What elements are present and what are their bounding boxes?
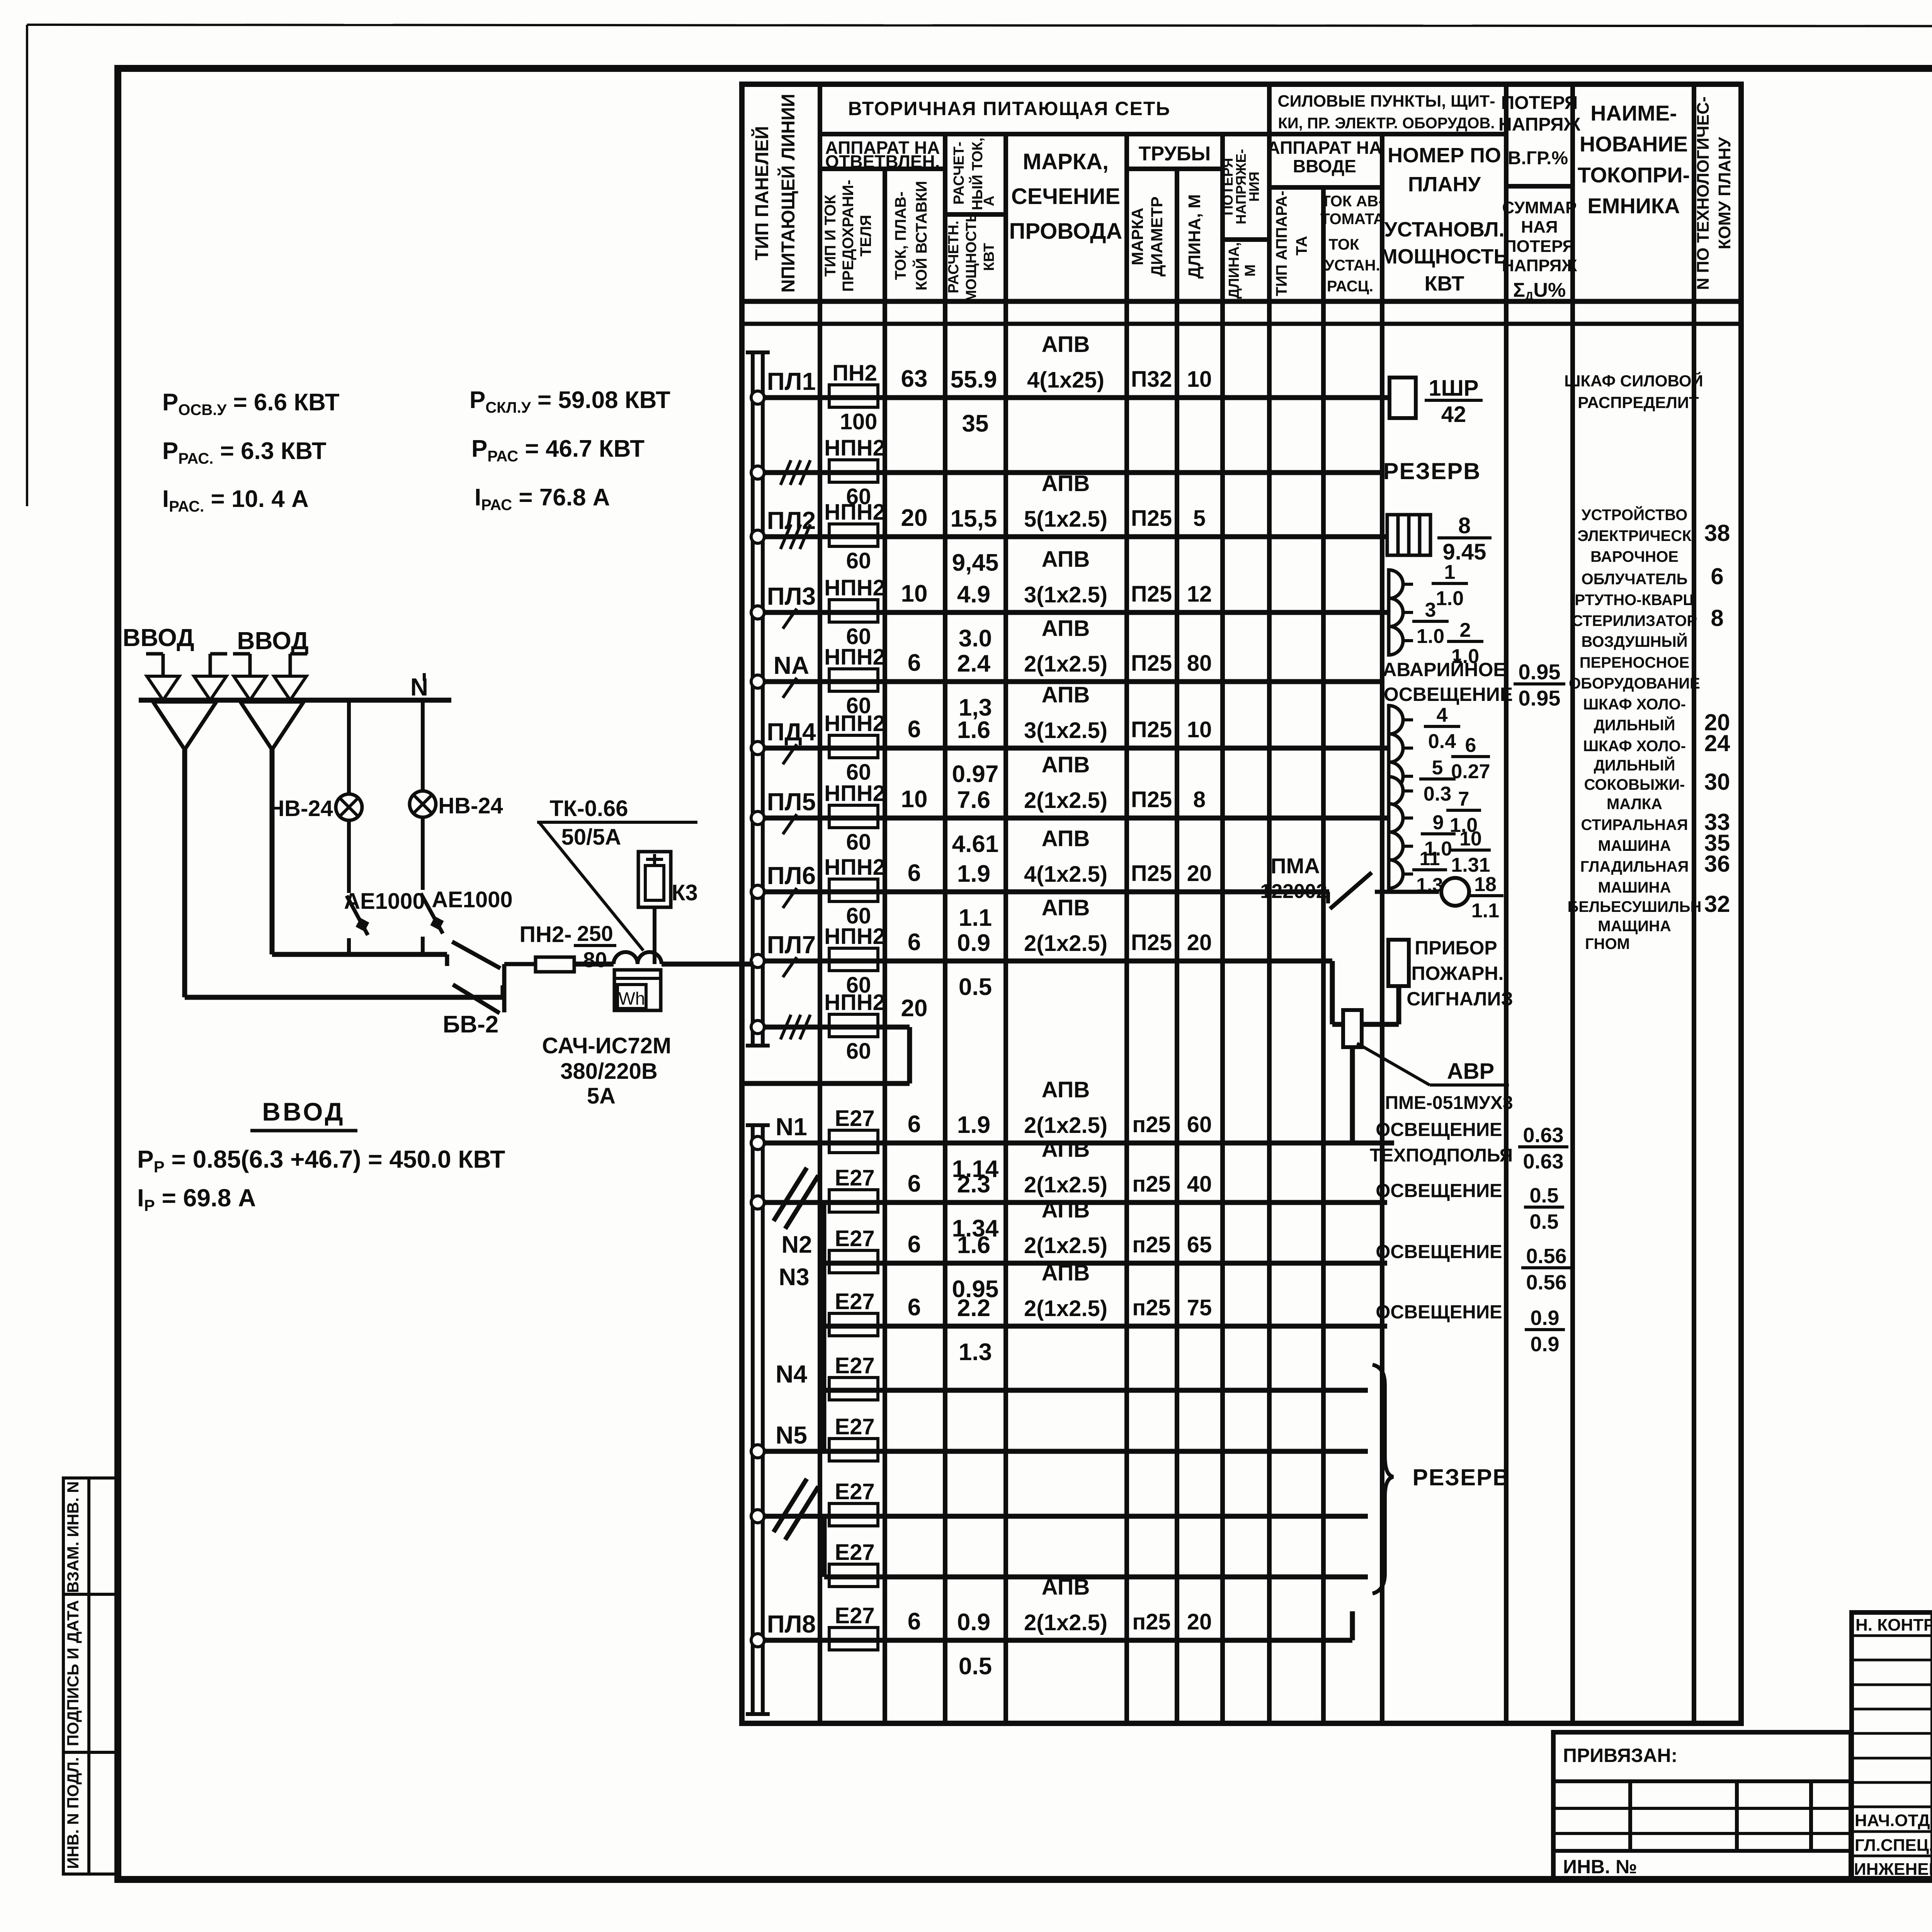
calc current/power values ПЛ8	[957, 1609, 992, 1680]
node on busbar for ПЛ6	[751, 885, 764, 898]
svg-text:ИНВ. N ПОДЛ.: ИНВ. N ПОДЛ.	[64, 1757, 82, 1869]
svg-text:1.6: 1.6	[957, 717, 990, 743]
svg-text:32: 32	[1704, 891, 1730, 917]
fuse Е27 row16	[829, 1479, 878, 1526]
node on busbar for ПЛ7	[751, 954, 764, 968]
fuse current value ПЛ3	[901, 580, 928, 607]
svg-text:0.95: 0.95	[1519, 686, 1561, 710]
upper formulas right block	[469, 387, 670, 514]
svg-text:2(1x2.5): 2(1x2.5)	[1024, 651, 1107, 677]
svg-text:N4: N4	[776, 1360, 807, 1388]
label Ввод (left pair)	[122, 624, 194, 651]
wire mark АПВ ПЛ5	[1024, 752, 1107, 813]
svg-text:ПРЕДОХРАНИ-: ПРЕДОХРАНИ-	[840, 180, 857, 292]
switch БВ-2 blade 1	[452, 942, 500, 968]
svg-text:6: 6	[908, 1294, 921, 1321]
svg-text:0.56: 0.56	[1526, 1271, 1566, 1294]
panel label N1	[776, 1113, 807, 1141]
feeder line row11 wire	[764, 1200, 1387, 1205]
svg-text:9: 9	[1433, 811, 1444, 834]
feeder line row16 wire	[764, 1514, 1368, 1519]
fuse Е27 N1	[829, 1106, 878, 1153]
header: Ток автомата Ток устан. расц.	[1320, 193, 1384, 295]
svg-text:ГЛАДИЛЬНАЯ: ГЛАДИЛЬНАЯ	[1580, 858, 1689, 875]
svg-text:БВ-2: БВ-2	[443, 1011, 498, 1038]
svg-text:6: 6	[908, 1608, 921, 1635]
consumer names list	[1568, 506, 1702, 952]
svg-text:КИ, ПР. ЭЛЕКТР. ОБОРУДОВ.: КИ, ПР. ЭЛЕКТР. ОБОРУДОВ.	[1278, 115, 1495, 132]
svg-text:НПН2: НПН2	[824, 435, 885, 461]
svg-text:ТОКОПРИ-: ТОКОПРИ-	[1578, 163, 1690, 187]
feeder line ПЛ7 wire	[764, 959, 1332, 964]
calc current/power values ПЛ6	[957, 861, 992, 931]
node on busbar for ПЛ1	[751, 391, 764, 404]
lamp branch wire 2	[421, 700, 425, 890]
wire mark АПВ row12	[1024, 1197, 1107, 1258]
svg-text:ЭЛЕКТРИЧЕСК: ЭЛЕКТРИЧЕСК	[1577, 527, 1692, 544]
svg-text:п25: п25	[1132, 1172, 1171, 1197]
switch БВ-2 blade 2	[453, 985, 500, 1013]
svg-text:35: 35	[962, 410, 989, 437]
node on busbar for NА	[751, 675, 764, 688]
svg-text:7.6: 7.6	[957, 787, 990, 813]
svg-text:42: 42	[1441, 402, 1466, 427]
fuse Е27 N4	[829, 1353, 878, 1400]
panel label ПЛ7	[767, 931, 816, 959]
svg-text:СИЛОВЫЕ ПУНКТЫ, ЩИТ-: СИЛОВЫЕ ПУНКТЫ, ЩИТ-	[1278, 92, 1495, 111]
label АЕ1000 #2	[432, 887, 513, 912]
svg-text:ОСВЕЩЕНИЕ: ОСВЕЩЕНИЕ	[1384, 684, 1513, 705]
svg-text:Е27: Е27	[835, 1106, 874, 1131]
svg-text:0.5: 0.5	[1529, 1184, 1558, 1207]
cascade link N3a-N4-N5	[821, 1326, 827, 1451]
svg-text:IР = 69.8 А: IР = 69.8 А	[137, 1184, 256, 1214]
svg-text:ПЕРЕНОСНОЕ: ПЕРЕНОСНОЕ	[1580, 654, 1689, 671]
svg-text:4(1x2.5): 4(1x2.5)	[1024, 862, 1107, 887]
svg-text:П25: П25	[1131, 651, 1172, 676]
svg-text:ПОДПИСЬ И ДАТА: ПОДПИСЬ И ДАТА	[64, 1600, 82, 1746]
svg-text:ПРИВЯЗАН:: ПРИВЯЗАН:	[1563, 1745, 1677, 1766]
svg-text:2.3: 2.3	[957, 1171, 990, 1198]
header: Вторичная питающая сеть	[848, 98, 1171, 119]
svg-text:НАПРЯЖ: НАПРЯЖ	[1498, 114, 1581, 135]
svg-text:ПОТЕРЯ: ПОТЕРЯ	[1501, 93, 1578, 113]
bottom collector wire	[185, 985, 503, 997]
svg-text:Wh: Wh	[619, 988, 645, 1009]
svg-text:10: 10	[1187, 367, 1212, 392]
svg-text:10: 10	[1459, 828, 1482, 850]
ОСВЕЩЕНИЕ ТЕХПОДПОЛЬЯ text (N1)	[1370, 1119, 1513, 1166]
fuse current value ПЛ7	[908, 929, 921, 956]
svg-text:2: 2	[1460, 619, 1471, 641]
node on busbar for ПЛ5	[751, 811, 764, 825]
svg-text:2(1x2.5): 2(1x2.5)	[1024, 931, 1107, 956]
svg-text:ТРУБЫ: ТРУБЫ	[1139, 143, 1211, 165]
svg-text:5А: 5А	[587, 1083, 616, 1109]
header: Номер по плану Установл. мощность кВт	[1380, 144, 1509, 295]
svg-text:2(1x2.5): 2(1x2.5)	[1024, 1233, 1107, 1258]
svg-text:ОБОРУДОВАНИЕ: ОБОРУДОВАНИЕ	[1569, 675, 1700, 692]
svg-text:100: 100	[840, 409, 878, 434]
calc current/power values row13	[957, 1295, 992, 1366]
panel label ПД4	[767, 718, 816, 746]
svg-text:4: 4	[1437, 704, 1448, 726]
svg-text:0.4: 0.4	[1428, 730, 1456, 753]
cascade link N2-N3-N3a	[821, 1202, 827, 1326]
wire mark АПВ row13	[1024, 1260, 1107, 1321]
svg-text:ОБЛУЧАТЕЛЬ: ОБЛУЧАТЕЛЬ	[1582, 571, 1688, 588]
node on busbar for ПЛ3	[751, 606, 764, 619]
svg-text:АПВ: АПВ	[1042, 752, 1090, 777]
svg-text:6: 6	[1711, 563, 1723, 589]
fuse current value row9	[901, 995, 928, 1022]
svg-text:ВВОД: ВВОД	[262, 1097, 345, 1126]
svg-text:НАИМЕ-: НАИМЕ-	[1590, 101, 1677, 125]
wire АВР to fire alarm device	[1362, 986, 1399, 1024]
svg-text:0.5: 0.5	[1529, 1210, 1558, 1233]
table column lines	[820, 84, 1694, 1723]
svg-text:0.95: 0.95	[1519, 660, 1561, 684]
svg-text:15,5: 15,5	[951, 505, 997, 532]
svg-text:АВР: АВР	[1447, 1059, 1494, 1084]
current transformer humps	[614, 952, 662, 964]
label Ввод (right pair)	[237, 627, 308, 655]
svg-text:ДИЛЬНЫЙ: ДИЛЬНЫЙ	[1594, 756, 1675, 774]
АВАРИЙНОЕ ОСВЕЩЕНИЕ text	[1383, 658, 1513, 705]
calc current/power values row12	[952, 1232, 999, 1303]
lighting group symbols ПЛ3	[1389, 570, 1413, 655]
svg-text:Е27: Е27	[835, 1226, 874, 1251]
fuse НПН2 ПЛ5	[824, 781, 885, 855]
lighting group symbols ПЛ5	[1389, 777, 1413, 888]
svg-text:Е27: Е27	[835, 1479, 874, 1504]
svg-text:8: 8	[1193, 787, 1206, 812]
ПРИБОР ПОЖАРН. СИГНАЛИЗ text	[1406, 937, 1513, 1010]
svg-text:6: 6	[908, 860, 921, 886]
header: Марка диаметр	[1128, 196, 1166, 276]
svg-text:СОКОВЫЖИ-: СОКОВЫЖИ-	[1584, 776, 1685, 793]
svg-text:УСТАНОВЛ.: УСТАНОВЛ.	[1384, 218, 1504, 241]
header: Тип и ток предохранителя	[822, 180, 874, 292]
fuse current value ПЛ1	[901, 366, 928, 392]
fuse Е27 N5	[829, 1414, 878, 1461]
svg-text:НОМЕР ПО: НОМЕР ПО	[1388, 144, 1501, 167]
calc current/power values ПЛ1	[951, 366, 997, 437]
svg-text:2.4: 2.4	[957, 650, 991, 677]
ПМЕ-051МУХ3 label	[1385, 1093, 1513, 1113]
svg-text:НИЯ: НИЯ	[1246, 172, 1262, 202]
input arrow 3	[233, 654, 266, 700]
svg-text:АПВ: АПВ	[1042, 1137, 1090, 1162]
sig row Н.КОНТР ПУХТЕЛЬ	[1855, 1616, 1932, 1634]
svg-text:NПИТАЮЩЕЙ ЛИНИИ: NПИТАЮЩЕЙ ЛИНИИ	[777, 94, 799, 293]
table header horizontal lines	[742, 134, 1741, 324]
contactor ПМА 122002 on ПЛ6	[1260, 854, 1439, 909]
svg-text:П25: П25	[1131, 506, 1172, 531]
svg-text:ΣДU%: ΣДU%	[1513, 279, 1566, 303]
cascade link rows 7-8	[822, 1516, 827, 1577]
svg-text:п25: п25	[1132, 1295, 1171, 1320]
title block: signature table	[1852, 1612, 1932, 1880]
svg-text:КВТ: КВТ	[981, 243, 997, 271]
svg-text:П25: П25	[1131, 861, 1172, 886]
svg-text:ПН2: ПН2	[832, 361, 877, 386]
svg-text:п25: п25	[1132, 1609, 1171, 1634]
svg-text:5: 5	[1432, 757, 1443, 779]
svg-text:КОЙ ВСТАВКИ: КОЙ ВСТАВКИ	[912, 181, 930, 291]
node on busbar for N5	[751, 1445, 764, 1458]
big inverted triangle 2	[240, 702, 304, 750]
svg-text:1.9: 1.9	[957, 1112, 990, 1138]
svg-text:ГНОМ: ГНОМ	[1585, 935, 1630, 952]
pipe mark ПЛ3	[1131, 582, 1212, 607]
svg-text:0.9: 0.9	[957, 930, 990, 956]
stamp label ИНВ. N ПОДЛ.	[64, 1757, 82, 1869]
svg-text:СУММАР: СУММАР	[1502, 198, 1577, 217]
panel label NА	[774, 651, 809, 679]
fuse current value row11	[908, 1170, 921, 1197]
fuse НПН2 NА	[824, 645, 885, 718]
svg-text:60: 60	[846, 548, 871, 573]
feeder line NА wire	[764, 679, 1383, 684]
fuse current value N1	[908, 1111, 921, 1138]
svg-text:П25: П25	[1131, 582, 1172, 607]
wire mark АПВ ПЛ6	[1024, 826, 1107, 887]
three-wire slash marks row9	[781, 1015, 810, 1039]
fuse НПН2 ПЛ6	[824, 855, 885, 929]
svg-text:65: 65	[1187, 1232, 1212, 1257]
fraction 0.56/0.56	[1521, 1245, 1571, 1294]
fuse НПН2 row1	[824, 435, 885, 509]
lighting section busbar	[746, 1125, 770, 1714]
svg-text:ИНВ. №: ИНВ. №	[1563, 1856, 1637, 1878]
svg-text:ШКАФ ХОЛО-: ШКАФ ХОЛО-	[1583, 696, 1686, 713]
pipe mark ПЛ6	[1131, 861, 1212, 886]
svg-text:80: 80	[583, 947, 607, 972]
svg-text:ПЛАНУ: ПЛАНУ	[1408, 173, 1481, 196]
feeder line N1 wire	[764, 1141, 1394, 1146]
feeder line ПЛ6 wire	[764, 889, 1329, 895]
svg-text:НАЧ.ОТД.: НАЧ.ОТД.	[1855, 1811, 1932, 1830]
svg-text:20: 20	[901, 995, 928, 1022]
svg-text:НВ-24: НВ-24	[438, 793, 503, 818]
panel label ПЛ5	[767, 788, 816, 816]
fraction 0.5/0.5	[1524, 1184, 1564, 1233]
ИНВ № text	[1563, 1856, 1637, 1878]
svg-text:10: 10	[901, 580, 928, 607]
svg-text:ПМА: ПМА	[1270, 854, 1320, 878]
svg-text:К3: К3	[672, 880, 698, 905]
svg-text:20: 20	[901, 505, 928, 531]
label ПН2-250/80	[519, 921, 616, 972]
РЕЗЕРВ text (lighting group)	[1413, 1464, 1510, 1490]
N label	[410, 673, 428, 701]
svg-text:П25: П25	[1131, 930, 1172, 955]
calc current/power values N1	[952, 1112, 999, 1182]
riser symbol between N5 and next row	[774, 1479, 818, 1540]
feeder line ПЛ5 wire	[764, 816, 1389, 821]
ПРИВЯЗАН block	[1553, 1732, 1851, 1880]
svg-text:МАШИНА: МАШИНА	[1598, 879, 1671, 896]
stamp label ВЗАМ. ИНВ. N	[64, 1481, 82, 1593]
ПРИВЯЗАН: text	[1563, 1745, 1677, 1766]
svg-text:0.9: 0.9	[957, 1609, 990, 1636]
svg-text:КОМУ ПЛАНУ: КОМУ ПЛАНУ	[1715, 137, 1734, 249]
feeder line ПД4 wire	[764, 746, 1389, 751]
svg-text:6: 6	[908, 1170, 921, 1197]
svg-text:2.2: 2.2	[957, 1295, 990, 1321]
svg-text:ТОМАТА: ТОМАТА	[1320, 211, 1384, 228]
svg-text:В.ГР.%: В.ГР.%	[1508, 148, 1568, 168]
svg-text:1.0: 1.0	[1436, 587, 1464, 610]
fuse Е27 row11	[829, 1165, 878, 1212]
svg-text:ПЛ8: ПЛ8	[767, 1610, 816, 1638]
svg-text:п25: п25	[1132, 1232, 1171, 1257]
svg-text:АПВ: АПВ	[1042, 332, 1090, 357]
svg-text:РАСЧЕТН.: РАСЧЕТН.	[946, 221, 962, 293]
svg-text:ТОК: ТОК	[1329, 236, 1360, 253]
svg-text:РЕЗЕРВ: РЕЗЕРВ	[1413, 1464, 1510, 1490]
svg-text:САЧ-ИС72М: САЧ-ИС72М	[542, 1033, 671, 1058]
three-wire slash marks ПЛ2	[781, 524, 810, 549]
svg-text:ТЕХПОДПОЛЬЯ: ТЕХПОДПОЛЬЯ	[1370, 1145, 1513, 1166]
node on busbar for ПЛ2	[751, 530, 764, 543]
svg-text:П32: П32	[1131, 367, 1172, 392]
pipe mark row12	[1132, 1232, 1212, 1257]
fuse НПН2 ПЛ3	[824, 575, 885, 649]
svg-text:СТЕРИЛИЗАТОР: СТЕРИЛИЗАТОР	[1572, 612, 1697, 629]
svg-text:АЕ1000: АЕ1000	[344, 889, 425, 914]
fraction 0.95/0.95	[1514, 660, 1565, 710]
distribution cabinet symbol ШР (ПЛ1)	[1389, 378, 1416, 418]
svg-text:0.97: 0.97	[952, 761, 999, 787]
left stamp column boxes	[63, 1478, 117, 1874]
svg-text:50/5А: 50/5А	[561, 825, 621, 850]
svg-text:60: 60	[846, 1039, 871, 1064]
svg-text:НВ-24: НВ-24	[268, 796, 333, 821]
svg-text:МАРКА: МАРКА	[1128, 207, 1146, 265]
svg-text:11: 11	[1420, 848, 1440, 869]
svg-text:ПРИБОР: ПРИБОР	[1415, 937, 1497, 959]
svg-text:Е27: Е27	[835, 1414, 874, 1439]
label НВ-24 #2	[438, 793, 503, 818]
svg-text:N2: N2	[781, 1231, 812, 1258]
feeder drop from triangle 1	[182, 750, 187, 997]
svg-text:20: 20	[1187, 861, 1212, 886]
svg-text:Е27: Е27	[835, 1353, 874, 1378]
svg-text:АПВ: АПВ	[1042, 826, 1090, 851]
fuse Е27 row13	[829, 1289, 878, 1336]
svg-text:ОСВЕЩЕНИЕ: ОСВЕЩЕНИЕ	[1376, 1242, 1502, 1262]
svg-text:20: 20	[1187, 930, 1212, 955]
svg-text:NА: NА	[774, 651, 809, 679]
svg-text:РЕЗЕРВ: РЕЗЕРВ	[1383, 458, 1481, 484]
header: Наименование токоприемника	[1578, 101, 1690, 218]
svg-text:2(1x2.5): 2(1x2.5)	[1024, 1296, 1107, 1321]
svg-text:3(1x2.5): 3(1x2.5)	[1024, 718, 1107, 743]
hatched power box (ПЛ2)	[1387, 515, 1430, 555]
svg-text:6: 6	[908, 716, 921, 743]
fraction 0.9/0.9	[1525, 1306, 1565, 1356]
svg-text:АПВ: АПВ	[1042, 682, 1090, 707]
node on busbar for row16	[751, 1510, 764, 1523]
feeder drop from triangle 2	[270, 750, 275, 954]
panel label N5	[776, 1421, 807, 1449]
svg-text:УСТАН.: УСТАН.	[1325, 257, 1380, 274]
svg-text:20: 20	[1187, 1609, 1212, 1634]
svg-text:1.0: 1.0	[1417, 625, 1444, 648]
svg-text:8: 8	[1711, 605, 1723, 631]
wire mark АПВ ПЛ1	[1027, 332, 1104, 393]
divider line first column (feed to lighting bus)	[742, 1081, 910, 1086]
sig row ГЛ.СПЕЦ. ПУХТЕЛЬ	[1855, 1836, 1932, 1855]
breaker АЕ1000 #1	[347, 896, 369, 954]
svg-text:НПН2: НПН2	[824, 575, 885, 600]
wire ПЛ7 to АВР	[1332, 961, 1343, 1024]
svg-text:Е27: Е27	[835, 1603, 874, 1628]
calc current/power values ПЛ2	[951, 505, 999, 576]
wire slash mark ПЛ3	[783, 609, 797, 629]
fuse НПН2 row9	[824, 990, 885, 1064]
feeder line ПЛ2 wire	[764, 534, 1387, 539]
svg-text:ПЛ7: ПЛ7	[767, 931, 816, 959]
svg-text:ТОК АВ-: ТОК АВ-	[1321, 193, 1383, 210]
label БВ-2	[443, 1011, 498, 1038]
svg-text:PР = 0.85(6.3 +46.7) = 450.0 К: PР = 0.85(6.3 +46.7) = 450.0 КВТ	[137, 1145, 505, 1176]
svg-text:3.0: 3.0	[959, 625, 992, 652]
feeder line ПЛ3 wire	[764, 610, 1389, 615]
breaker АЕ1000 #2	[421, 893, 444, 954]
labels N2 N3	[779, 1231, 812, 1291]
fractions 1/1.0 3/1.0 2/1.0	[1412, 561, 1483, 668]
svg-text:60: 60	[1187, 1112, 1212, 1137]
node on busbar for row1	[751, 466, 764, 479]
svg-text:ПН2-: ПН2-	[519, 922, 571, 947]
svg-text:ОСВЕЩЕНИЕ: ОСВЕЩЕНИЕ	[1376, 1119, 1502, 1140]
svg-text:0.63: 0.63	[1523, 1150, 1563, 1173]
svg-text:ВАРОЧНОЕ: ВАРОЧНОЕ	[1590, 548, 1679, 565]
fuse ПН2 ПЛ1	[829, 361, 878, 434]
svg-text:АПВ: АПВ	[1042, 1197, 1090, 1223]
svg-text:МАЩИНА: МАЩИНА	[1598, 918, 1671, 935]
node on busbar for ПД4	[751, 742, 764, 755]
fuse current value ПЛ2	[901, 505, 928, 531]
svg-text:АПВ: АПВ	[1042, 1077, 1090, 1102]
svg-text:НПН2: НПН2	[824, 924, 885, 949]
pipe mark row13	[1132, 1295, 1212, 1320]
header: Тип панелей №питающей линии	[751, 94, 799, 293]
svg-text:1.1: 1.1	[1471, 900, 1499, 922]
svg-text:М: М	[1242, 264, 1259, 277]
svg-text:0.9: 0.9	[1530, 1306, 1559, 1330]
svg-text:0.27: 0.27	[1451, 760, 1490, 783]
svg-text:75: 75	[1187, 1295, 1212, 1320]
svg-text:N1: N1	[776, 1113, 807, 1141]
input arrow 1	[146, 654, 179, 700]
label ТК-0.66 50/5А with leader	[537, 796, 697, 951]
svg-text:П25: П25	[1131, 717, 1172, 742]
svg-text:ОСВЕЩЕНИЕ: ОСВЕЩЕНИЕ	[1376, 1302, 1502, 1323]
svg-text:10: 10	[901, 786, 928, 813]
svg-text:ОТВЕТВЛЕН.: ОТВЕТВЛЕН.	[825, 151, 940, 172]
node on busbar for row9	[751, 1020, 764, 1034]
svg-text:ВЗАМ. ИНВ. N: ВЗАМ. ИНВ. N	[64, 1481, 82, 1593]
feeder line row17 wire	[824, 1575, 1368, 1580]
svg-text:АПВ: АПВ	[1042, 547, 1090, 572]
svg-text:ПМЕ-051МУХ3: ПМЕ-051МУХ3	[1385, 1093, 1513, 1113]
svg-text:1.6: 1.6	[957, 1232, 990, 1259]
fuse Е27 ПЛ8	[829, 1603, 878, 1650]
